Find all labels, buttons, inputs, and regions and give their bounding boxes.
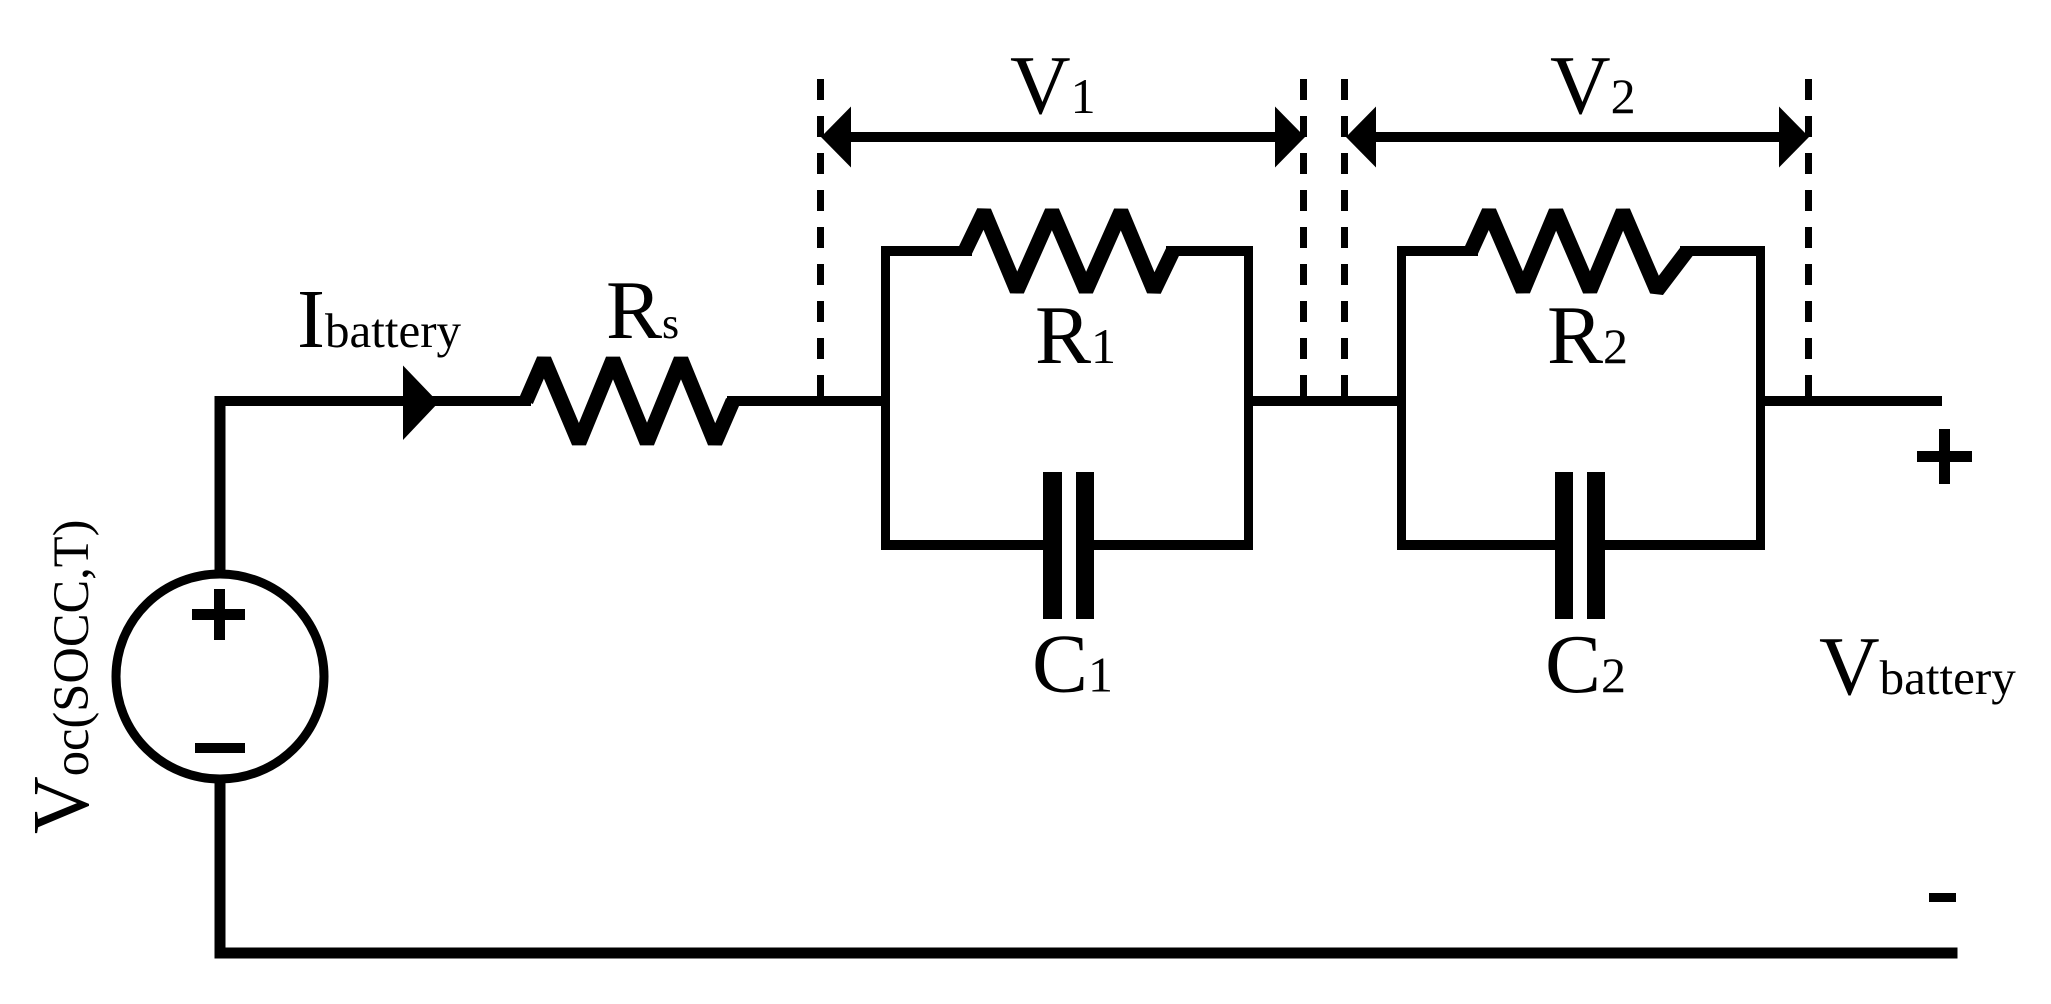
capacitor C2 plates [1555, 472, 1605, 619]
resistor R2 zigzag [1471, 212, 1687, 291]
R2 box top line segments [1397, 246, 1765, 256]
R1/C1 box right edge [1244, 246, 1253, 550]
wire: top horizontal, source to Rs [215, 396, 532, 406]
minus sign inside source [195, 743, 245, 753]
label V_oc(SOCC,T) [18, 520, 106, 834]
R2/C2 box left edge [1397, 246, 1406, 550]
C2 bottom line segments [1397, 540, 1765, 550]
resistor Rs zigzag [526, 360, 733, 443]
dashed node line right (V2 end) [1805, 79, 1812, 396]
capacitor C1 plates [1043, 472, 1094, 619]
minus terminal (battery -) [1929, 893, 1956, 902]
resistor R1 zigzag [965, 212, 1173, 291]
V2 measurement arrow [1346, 107, 1809, 168]
R1 box top line segments [881, 246, 1253, 256]
wire: left vertical from top wire down to source top [215, 396, 226, 573]
voltage source V_oc circle [116, 574, 324, 779]
wire: bottom horizontal [215, 948, 1958, 959]
dashed node line middle-left (V1 end) [1300, 79, 1307, 396]
wire: Rs to R1 box [727, 396, 886, 406]
V1 measurement arrow [821, 107, 1305, 168]
dashed node line middle-right (V2 start) [1341, 79, 1348, 396]
plus sign inside source [192, 589, 245, 640]
wire between RC blocks [1249, 396, 1401, 406]
plus terminal (battery +) [1917, 429, 1972, 484]
R1/C1 box left edge [881, 246, 890, 550]
wire: R2 box to right terminal [1761, 396, 1942, 406]
current arrowhead I_battery [403, 366, 439, 441]
R2/C2 box right edge [1756, 246, 1765, 550]
dashed node line left (V1 start) [817, 79, 824, 396]
C1 bottom line segments [881, 540, 1253, 550]
wire: left vertical from source bottom down to bottom wire [215, 782, 226, 958]
